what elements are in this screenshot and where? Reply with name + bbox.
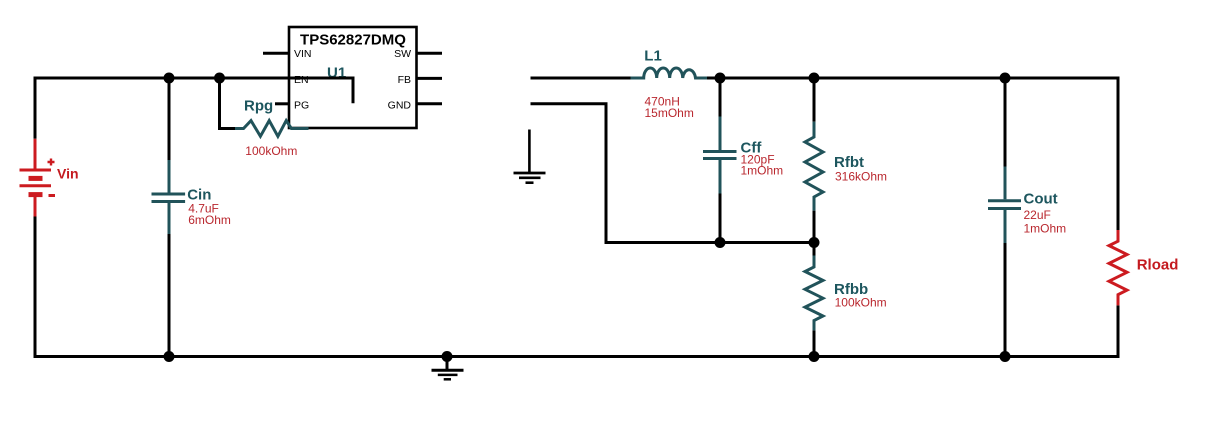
junction node: ground — [442, 351, 453, 362]
inductor L1 — [631, 68, 708, 78]
wire: Rfbt vertical leads — [813, 78, 816, 243]
wire: FB pin stub — [417, 77, 443, 80]
wire: top rail Vin to EN pin — [35, 78, 289, 139]
junction node: Cin bottom — [164, 351, 175, 362]
resistor Rfbt — [805, 122, 823, 211]
wire: PG pin stub — [275, 102, 289, 105]
svg-text:100kOhm: 100kOhm — [245, 144, 297, 158]
svg-text:22uF: 22uF — [1024, 208, 1051, 222]
svg-text:PG: PG — [294, 99, 309, 111]
wire: Cff vertical leads — [719, 78, 722, 243]
svg-text:6mOhm: 6mOhm — [188, 213, 231, 227]
svg-text:316kOhm: 316kOhm — [835, 169, 887, 183]
wire: Cout vertical leads — [1004, 78, 1007, 357]
svg-text:1mOhm: 1mOhm — [741, 164, 784, 178]
wire: Cin vertical leads — [168, 78, 171, 357]
svg-text:Vin: Vin — [57, 166, 79, 182]
resistor Rload — [1109, 230, 1127, 305]
svg-text:VIN: VIN — [294, 48, 312, 60]
junction node: Cout top — [1000, 73, 1011, 84]
ground at bottom rail — [432, 357, 464, 380]
wire: battery bottom to bottom rail to Rload bottom — [35, 217, 1118, 357]
capacitor Cff — [703, 117, 737, 194]
svg-text:1mOhm: 1mOhm — [1024, 221, 1067, 235]
svg-text:GND: GND — [388, 99, 412, 111]
capacitor Cin — [152, 160, 186, 234]
svg-text:EN: EN — [294, 74, 309, 86]
wire: EN routing over IC — [289, 78, 353, 103]
wire: Rpg branch from EN node — [220, 77, 236, 129]
wire: FB net from gnd area to feedback node — [531, 104, 815, 243]
ground floating near GND pin — [514, 130, 546, 183]
junction node: Cout bottom — [1000, 351, 1011, 362]
junction node: SW/Cff top — [715, 73, 726, 84]
junction node: Cin top — [164, 73, 175, 84]
junction node: Rfbt top — [809, 73, 820, 84]
op-amp U1 IC body TPS62827DMQ — [289, 27, 417, 128]
wire: SW net right of L1 to Rload top — [707, 78, 1118, 230]
svg-text:Cout: Cout — [1024, 190, 1058, 207]
svg-text:15mOhm: 15mOhm — [645, 106, 694, 120]
svg-text:Rload: Rload — [1137, 257, 1179, 274]
svg-text:L1: L1 — [644, 47, 662, 64]
battery Vin source — [20, 139, 56, 217]
wire: GND pin stub — [417, 102, 443, 105]
svg-text:Rpg: Rpg — [244, 98, 273, 115]
svg-text:FB: FB — [398, 74, 411, 86]
capacitor Cout — [988, 167, 1021, 244]
resistor Rfbb — [805, 256, 823, 331]
junction node: Cff bottom / FB — [715, 237, 726, 248]
wire: VIN pin stub — [263, 52, 289, 55]
wire: Rfbb vertical leads — [813, 243, 816, 357]
wire: SW pin stub — [417, 52, 443, 55]
wire: SW net left segment — [531, 77, 631, 80]
resistor Rpg — [235, 121, 309, 137]
junction node: Rfbt/Rfbb FB — [809, 237, 820, 248]
svg-text:TPS62827DMQ: TPS62827DMQ — [300, 31, 406, 48]
junction node: EN/Rpg — [214, 73, 225, 84]
junction node: Rfbb bottom — [809, 351, 820, 362]
svg-text:100kOhm: 100kOhm — [835, 296, 887, 310]
svg-text:SW: SW — [394, 48, 411, 60]
